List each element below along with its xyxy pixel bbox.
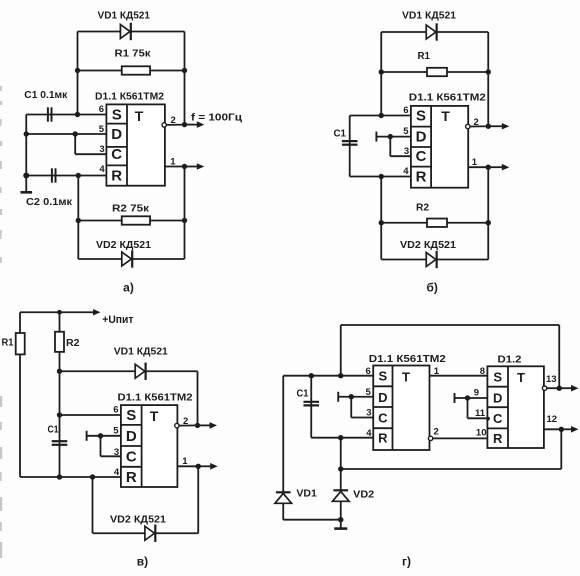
caption b) bbox=[426, 281, 437, 295]
node pin6 junction (circuit g) bbox=[338, 373, 343, 378]
label C1 0.1mk (circuit a) bbox=[24, 90, 68, 101]
output 13 bubble (circuit g) bbox=[542, 386, 546, 390]
svg-text:6: 6 bbox=[99, 104, 104, 115]
node C-pin entry dot (circuit v) bbox=[120, 455, 124, 459]
capacitor C1 (circuit b) bbox=[342, 141, 358, 145]
label VD1 KD521 (circuit a) bbox=[98, 11, 151, 22]
svg-text:6: 6 bbox=[403, 105, 408, 116]
pin 6 label (circuit b) bbox=[403, 105, 408, 116]
svg-text:S: S bbox=[126, 407, 136, 424]
wire VD1 top loop (circuit b) bbox=[381, 31, 488, 33]
label R2 (circuit v) bbox=[66, 338, 80, 349]
pin 5 label (circuit b) bbox=[403, 126, 409, 137]
output 2 bubble (circuit a) bbox=[162, 123, 166, 127]
label D1.1 K561TM2 (circuit a) bbox=[95, 92, 164, 103]
pin 4 label (circuit g) bbox=[366, 428, 372, 439]
svg-text:S: S bbox=[112, 107, 122, 124]
svg-text:C1 0.1мк: C1 0.1мк bbox=[24, 90, 68, 101]
svg-text:T: T bbox=[517, 370, 525, 385]
node pin4/VD2 junction (circuit v) bbox=[90, 474, 95, 479]
pin 1 label (circuit a) bbox=[170, 157, 176, 168]
pin 11 label (circuit g) bbox=[475, 408, 486, 419]
svg-text:C1: C1 bbox=[334, 129, 347, 140]
label VD2 KD521 (circuit a) bbox=[96, 240, 151, 251]
svg-text:11: 11 bbox=[475, 408, 486, 419]
node R2 right junction (circuit b) bbox=[486, 220, 491, 225]
node C-pin entry dot D1.1 (circuit g) bbox=[372, 416, 376, 420]
diode VD2 (circuit g) bbox=[332, 490, 349, 501]
svg-text:D: D bbox=[126, 428, 137, 445]
wire pin3 row (circuit a) bbox=[75, 153, 106, 155]
svg-text:S: S bbox=[416, 108, 426, 125]
resistor R1 (circuit v) bbox=[16, 333, 25, 354]
node C-pin entry dot D1.2 (circuit g) bbox=[486, 417, 490, 421]
wire VD1 top loop (circuit a) bbox=[78, 31, 185, 33]
capacitor C1 (circuit g) bbox=[303, 402, 319, 406]
diode VD2 (circuit a) bbox=[122, 250, 132, 267]
svg-text:+Uпит: +Uпит bbox=[102, 314, 134, 326]
svg-text:f = 100Гц: f = 100Гц bbox=[191, 113, 243, 124]
svg-text:C: C bbox=[416, 148, 427, 165]
wire pin4 row (circuit b) bbox=[350, 176, 411, 178]
svg-text:1: 1 bbox=[170, 157, 176, 168]
wire pin5 row (circuit b) bbox=[376, 136, 411, 138]
label T D1.2 (circuit g) bbox=[517, 370, 525, 385]
wire R2 row (circuit b) bbox=[381, 222, 488, 224]
wire VD1 row (circuit v) bbox=[60, 370, 198, 372]
svg-text:S: S bbox=[379, 369, 388, 384]
svg-text:3: 3 bbox=[366, 408, 371, 419]
svg-text:2: 2 bbox=[474, 117, 479, 128]
node output1 junction (circuit b) bbox=[486, 165, 491, 170]
wire output2 (circuit v) bbox=[179, 424, 197, 426]
svg-text:D: D bbox=[378, 390, 387, 405]
arrow output1 (circuit b) bbox=[488, 164, 509, 171]
pin 4 label (circuit a) bbox=[99, 164, 105, 175]
svg-text:R2 75к: R2 75к bbox=[112, 204, 150, 215]
pin 2 label (circuit b) bbox=[474, 117, 479, 128]
pin 3 label (circuit v) bbox=[114, 447, 119, 458]
wire pin4-to-R2 drop (circuit a) bbox=[77, 176, 79, 260]
wire pin6 row (circuit g) bbox=[283, 375, 373, 377]
capacitor C1 (circuit a) bbox=[48, 107, 52, 121]
node right-rail/R1 junction (circuit a) bbox=[182, 68, 187, 73]
diode VD1 (circuit b) bbox=[426, 23, 436, 40]
node output13 junction (circuit g) bbox=[557, 386, 562, 391]
node output12 junction (circuit g) bbox=[559, 427, 564, 432]
wire output2 (circuit a) bbox=[166, 124, 184, 126]
wire pin6 row (circuit b) bbox=[350, 115, 411, 117]
node pin6 junction (circuit b) bbox=[379, 113, 384, 118]
wire pin5-to-C drop (circuit g) bbox=[350, 397, 352, 418]
svg-text:4: 4 bbox=[99, 164, 105, 175]
node pin4 mid junction (circuit a) bbox=[76, 173, 81, 178]
node R2 right junction (circuit a) bbox=[182, 218, 187, 223]
wire R1 row (circuit a) bbox=[78, 70, 185, 72]
svg-text:T: T bbox=[441, 108, 450, 124]
node output1 junction (circuit a) bbox=[182, 164, 187, 169]
wire pin3 row (circuit v) bbox=[101, 455, 121, 457]
label T D1.1 (circuit g) bbox=[402, 370, 410, 385]
node R2 left junction (circuit b) bbox=[379, 220, 384, 225]
wire pin5 row (circuit g) bbox=[338, 396, 373, 398]
svg-text:3: 3 bbox=[404, 146, 409, 157]
wire pin4 row (circuit a) bbox=[26, 175, 106, 177]
wire left rail lower (circuit b) bbox=[380, 177, 382, 260]
svg-text:VD2: VD2 bbox=[353, 490, 374, 501]
svg-text:1: 1 bbox=[182, 456, 188, 467]
wire left rail top (circuit b) bbox=[380, 32, 382, 116]
pin 3 label (circuit g) bbox=[366, 408, 371, 419]
node C-pin entry dot (circuit a) bbox=[105, 152, 109, 156]
node C1 top junction (circuit g) bbox=[309, 373, 314, 378]
pin 6 label (circuit g) bbox=[366, 366, 371, 377]
pin 5 label (circuit g) bbox=[366, 387, 372, 398]
pin 10 label D1.2 (circuit g) bbox=[476, 428, 487, 439]
svg-text:5: 5 bbox=[403, 126, 409, 137]
pin 2 label (circuit a) bbox=[171, 115, 176, 126]
flip-flop D1.1 (circuit v) bbox=[121, 405, 177, 487]
output 2 bubble (circuit v) bbox=[175, 423, 179, 427]
svg-text:C: C bbox=[493, 411, 503, 426]
svg-text:R1 75к: R1 75к bbox=[115, 49, 152, 60]
svg-text:VD1 КД521: VD1 КД521 bbox=[114, 347, 168, 358]
svg-text:12: 12 bbox=[547, 414, 558, 425]
resistor R2 (circuit a) bbox=[122, 216, 150, 224]
node VD1 row junction (circuit v) bbox=[57, 369, 62, 374]
svg-text:D1.1 К561ТМ2: D1.1 К561ТМ2 bbox=[409, 93, 486, 104]
wire bottom return row (circuit g) bbox=[341, 468, 562, 470]
svg-text:VD2 КД521: VD2 КД521 bbox=[400, 240, 456, 251]
svg-text:8: 8 bbox=[480, 366, 485, 377]
caption g) bbox=[402, 555, 411, 569]
diode VD2 (circuit v) bbox=[145, 525, 155, 542]
svg-text:T: T bbox=[135, 108, 144, 124]
node pin4 junction (circuit g) bbox=[338, 435, 343, 440]
diode VD1 (circuit g) bbox=[275, 492, 292, 503]
svg-text:VD2 КД521: VD2 КД521 bbox=[96, 240, 151, 251]
svg-text:2: 2 bbox=[434, 427, 439, 438]
pin 13 label (circuit g) bbox=[546, 374, 557, 385]
wire pin3 row (circuit b) bbox=[390, 155, 411, 157]
wire right rail lower (circuit v) bbox=[197, 466, 199, 533]
wire VD2 row (circuit a) bbox=[78, 258, 184, 260]
stub D input D1.1 (circuit g) bbox=[337, 392, 339, 402]
label C1 (circuit g) bbox=[297, 389, 309, 400]
stub D input (circuit b) bbox=[375, 132, 377, 142]
wire left rail top (circuit a) bbox=[77, 32, 79, 115]
pin 2 label D1.1 (circuit g) bbox=[434, 427, 439, 438]
wire output1 (circuit v) bbox=[177, 465, 198, 467]
pin 3 label (circuit b) bbox=[404, 146, 409, 157]
svg-text:13: 13 bbox=[546, 374, 557, 385]
svg-text:в): в) bbox=[137, 555, 148, 569]
node supply junction (circuit v) bbox=[57, 310, 62, 315]
resistor R2 (circuit b) bbox=[427, 219, 447, 227]
pin 5 label (circuit v) bbox=[113, 426, 119, 437]
resistor R1 (circuit a) bbox=[122, 66, 150, 74]
svg-text:R: R bbox=[493, 431, 503, 446]
svg-text:3: 3 bbox=[114, 447, 119, 458]
svg-text:C: C bbox=[378, 411, 388, 426]
svg-text:2: 2 bbox=[183, 416, 188, 427]
stub D input D1.2 (circuit g) bbox=[454, 393, 456, 403]
wire out2-to-pin10 (circuit g) bbox=[433, 437, 488, 439]
node output2 junction (circuit a) bbox=[182, 122, 187, 127]
wire output13 (circuit g) bbox=[547, 387, 559, 389]
svg-text:4: 4 bbox=[403, 166, 409, 177]
svg-text:4: 4 bbox=[114, 467, 120, 478]
svg-text:C: C bbox=[111, 146, 122, 163]
svg-text:D: D bbox=[493, 391, 502, 406]
svg-text:2: 2 bbox=[171, 115, 176, 126]
arrow output1 (circuit v) bbox=[198, 463, 217, 470]
arrow output12 (circuit g) bbox=[561, 426, 578, 433]
node pin4 junction (circuit b) bbox=[379, 174, 384, 179]
wire +U supply row (circuit v) bbox=[20, 311, 91, 313]
label C2 0.1mk (circuit a) bbox=[26, 197, 73, 208]
wire left rail R1 (circuit v) bbox=[19, 312, 21, 477]
node output1 junction (circuit v) bbox=[196, 464, 201, 469]
label C1 (circuit b) bbox=[334, 129, 347, 140]
svg-text:C1: C1 bbox=[48, 425, 59, 436]
wire pin5 row (circuit v) bbox=[87, 435, 121, 437]
label VD1 KD521 (circuit b) bbox=[402, 11, 456, 22]
flip-flop D1.2 (circuit g) bbox=[487, 366, 544, 448]
scan edge artifacts bbox=[0, 86, 2, 558]
wire pin6 row (circuit a) bbox=[26, 114, 106, 116]
label VD2 KD521 (circuit v) bbox=[110, 515, 166, 526]
node pin5 junction (circuit v) bbox=[98, 433, 103, 438]
wire pin5-to-C drop (circuit a) bbox=[74, 134, 76, 154]
label D1.2 (circuit g) bbox=[498, 355, 522, 366]
wire pin3 row (circuit g) bbox=[351, 417, 373, 419]
pin 6 label (circuit a) bbox=[99, 104, 104, 115]
node right-rail/R1 junction (circuit b) bbox=[486, 69, 491, 74]
svg-text:R1: R1 bbox=[418, 51, 431, 62]
label R1 75k (circuit a) bbox=[115, 49, 152, 60]
pin 2 label (circuit v) bbox=[183, 416, 188, 427]
svg-text:5: 5 bbox=[366, 387, 372, 398]
wire VD1 bottom row (circuit g) bbox=[283, 519, 341, 521]
flip-flop D1.1 (circuit b) bbox=[411, 106, 468, 188]
arrow output13 (circuit g) bbox=[559, 385, 578, 392]
output 2 bubble (circuit b) bbox=[466, 124, 470, 128]
svg-text:C: C bbox=[126, 448, 137, 465]
svg-text:R: R bbox=[111, 168, 122, 185]
wire output1 (circuit b) bbox=[468, 166, 488, 168]
caption a) bbox=[123, 281, 134, 295]
arrow output2 (circuit a) bbox=[185, 121, 205, 128]
label VD2 KD521 (circuit b) bbox=[400, 240, 456, 251]
svg-text:VD2 КД521: VD2 КД521 bbox=[110, 515, 166, 526]
wire mid rail R2 (circuit v) bbox=[59, 312, 61, 477]
capacitor C1 (circuit v) bbox=[52, 441, 68, 445]
wire top loop right drop (circuit g) bbox=[558, 325, 560, 388]
wire pin5-to-C drop (circuit v) bbox=[100, 436, 102, 457]
node pin4/C1 junction (circuit v) bbox=[57, 474, 62, 479]
label R2 (circuit b) bbox=[416, 203, 429, 214]
stub D input (circuit v) bbox=[86, 431, 88, 441]
pin 5 label (circuit a) bbox=[99, 124, 105, 135]
label +Upit (circuit v) bbox=[102, 314, 134, 326]
svg-text:г): г) bbox=[402, 555, 411, 569]
svg-text:S: S bbox=[493, 370, 502, 385]
svg-text:D1.2: D1.2 bbox=[498, 355, 522, 366]
pin 9 label (circuit g) bbox=[474, 388, 479, 399]
wire output12 drop (circuit g) bbox=[560, 429, 562, 469]
pin 6 label (circuit v) bbox=[113, 405, 118, 416]
caption v) bbox=[137, 555, 148, 569]
svg-text:VD1: VD1 bbox=[296, 489, 317, 500]
svg-text:VD1 КД521: VD1 КД521 bbox=[98, 11, 151, 22]
node C-pin entry dot (circuit b) bbox=[410, 155, 414, 159]
wire pin5 row (circuit a) bbox=[26, 133, 106, 135]
node pin6/left-rail junction (circuit a) bbox=[75, 112, 80, 117]
svg-text:а): а) bbox=[123, 281, 134, 295]
resistor R1 (circuit b) bbox=[427, 68, 447, 76]
wire pin11 row (circuit g) bbox=[468, 417, 488, 419]
label T (circuit v) bbox=[150, 408, 159, 424]
node return junction (circuit g) bbox=[338, 466, 343, 471]
node left-rail/R1 junction (circuit b) bbox=[379, 69, 384, 74]
svg-text:6: 6 bbox=[366, 366, 371, 377]
node output2 junction (circuit v) bbox=[195, 423, 200, 428]
wire pin9-to-C drop (circuit g) bbox=[467, 398, 469, 418]
diode VD2 (circuit b) bbox=[426, 251, 436, 268]
node pin5 junction left (circuit a) bbox=[24, 131, 29, 136]
node output2 junction (circuit b) bbox=[486, 124, 491, 129]
wire VD2 row (circuit v) bbox=[93, 532, 199, 534]
pin 3 label (circuit a) bbox=[99, 144, 104, 155]
ground (circuit g) bbox=[334, 520, 347, 529]
svg-text:R1: R1 bbox=[2, 338, 14, 349]
svg-text:R: R bbox=[126, 469, 137, 486]
svg-text:D: D bbox=[416, 129, 427, 146]
pin 1 label (circuit b) bbox=[472, 157, 478, 168]
flip-flop D1.1 (circuit g) bbox=[373, 366, 429, 451]
label f=100Hz (circuit a) bbox=[191, 113, 243, 124]
node pin5 junction mid (circuit a) bbox=[73, 131, 78, 136]
svg-text:1: 1 bbox=[472, 157, 478, 168]
svg-text:9: 9 bbox=[474, 388, 479, 399]
pin 1 label D1.1 (circuit g) bbox=[434, 366, 440, 377]
arrow +U supply (circuit v) bbox=[91, 309, 101, 316]
node pin5 junction (circuit g) bbox=[349, 394, 354, 399]
diode VD1 (circuit a) bbox=[120, 23, 130, 40]
wire pin9 row (circuit g) bbox=[455, 397, 488, 399]
svg-text:VD1 КД521: VD1 КД521 bbox=[402, 11, 456, 22]
node pin9 junction (circuit g) bbox=[465, 395, 470, 400]
node pin4 left junction (circuit a) bbox=[23, 173, 29, 179]
svg-text:D1.1 К561ТМ2: D1.1 К561ТМ2 bbox=[118, 393, 193, 404]
svg-text:10: 10 bbox=[476, 428, 487, 439]
svg-text:R2: R2 bbox=[416, 203, 429, 214]
label C1 (circuit v) bbox=[48, 425, 59, 436]
wire pin4 row (circuit g) bbox=[311, 437, 373, 439]
node R2 left junction (circuit a) bbox=[76, 218, 81, 223]
svg-text:3: 3 bbox=[99, 144, 104, 155]
wire output2 (circuit b) bbox=[470, 125, 488, 127]
pin 4 label (circuit b) bbox=[403, 166, 409, 177]
node pin5 junction (circuit b) bbox=[388, 134, 393, 139]
wire R1 row (circuit b) bbox=[381, 71, 488, 73]
svg-text:R: R bbox=[378, 431, 388, 446]
wire R2 row (circuit a) bbox=[78, 220, 184, 222]
label VD1 KD521 (circuit v) bbox=[114, 347, 168, 358]
wire outer-left rail (circuit a) bbox=[25, 115, 27, 176]
ground (circuit a) bbox=[20, 176, 32, 193]
svg-text:C1: C1 bbox=[297, 389, 309, 400]
flip-flop D1.1 (circuit a) bbox=[106, 104, 164, 185]
label R1 (circuit v) bbox=[2, 338, 14, 349]
output2 bubble D1.1 (circuit g) bbox=[428, 436, 432, 440]
pin 8 label D1.2 (circuit g) bbox=[480, 366, 485, 377]
wire top loop left drop (circuit g) bbox=[340, 325, 342, 376]
wire right rail lower (circuit a) bbox=[184, 167, 186, 260]
label VD1 (circuit g) bbox=[296, 489, 317, 500]
wire C1 branch (circuit g) bbox=[310, 376, 312, 438]
node pin6 junction (circuit v) bbox=[57, 412, 62, 417]
label D1.1 K561TM2 (circuit b) bbox=[409, 93, 486, 104]
label R2 75k (circuit a) bbox=[112, 204, 150, 215]
capacitor C2 (circuit a) bbox=[52, 168, 56, 182]
svg-text:1: 1 bbox=[434, 366, 440, 377]
pin 4 label (circuit v) bbox=[114, 467, 120, 478]
svg-text:6: 6 bbox=[113, 405, 118, 416]
label D1.1 K561TM2 (circuit v) bbox=[118, 393, 193, 404]
wire output1 (circuit a) bbox=[165, 166, 185, 168]
wire right rail lower (circuit b) bbox=[487, 167, 489, 259]
pin 1 label (circuit v) bbox=[182, 456, 188, 467]
svg-text:R2: R2 bbox=[66, 338, 80, 349]
wire pin4 row (circuit v) bbox=[20, 476, 121, 478]
wire mid rail (circuit g) bbox=[340, 438, 342, 520]
wire pin4-to-VD2 drop (circuit v) bbox=[92, 477, 94, 533]
wire VD2 row (circuit b) bbox=[381, 259, 488, 261]
svg-text:T: T bbox=[402, 370, 410, 385]
wire C1 branch (circuit b) bbox=[349, 116, 351, 177]
wire right rail top (circuit a) bbox=[184, 32, 186, 125]
wire output12 (circuit g) bbox=[544, 428, 561, 430]
svg-text:D1.1 К561ТМ2: D1.1 К561ТМ2 bbox=[369, 354, 446, 365]
wire pin6 row (circuit v) bbox=[60, 414, 121, 416]
svg-text:5: 5 bbox=[99, 124, 105, 135]
svg-text:R: R bbox=[416, 169, 427, 186]
arrow output2 (circuit v) bbox=[198, 422, 218, 429]
wire pin5-to-C drop (circuit b) bbox=[389, 137, 391, 157]
arrow output2 (circuit b) bbox=[488, 123, 509, 130]
svg-text:T: T bbox=[150, 408, 159, 424]
svg-text:4: 4 bbox=[366, 428, 372, 439]
arrow output1 (circuit a) bbox=[185, 163, 205, 170]
node bottom junction (circuit g) bbox=[338, 517, 343, 522]
diode VD1 (circuit v) bbox=[135, 363, 145, 380]
svg-text:D: D bbox=[111, 126, 122, 143]
wire top feedback loop (circuit g) bbox=[341, 324, 560, 326]
wire right rail top (circuit b) bbox=[487, 32, 489, 126]
svg-text:D1.1 К561ТМ2: D1.1 К561ТМ2 bbox=[95, 92, 164, 103]
label R1 (circuit b) bbox=[418, 51, 431, 62]
label T (circuit a) bbox=[135, 108, 144, 124]
label T (circuit b) bbox=[441, 108, 450, 124]
wire out1-to-pin8 (circuit g) bbox=[430, 375, 488, 377]
svg-text:C2 0.1мк: C2 0.1мк bbox=[26, 197, 73, 208]
node left-rail/R1 junction (circuit a) bbox=[75, 68, 80, 73]
resistor R2 (circuit v) bbox=[55, 332, 64, 352]
wire VD1 branch vertical (circuit g) bbox=[282, 376, 284, 520]
wire right rail upper (circuit v) bbox=[197, 371, 199, 425]
